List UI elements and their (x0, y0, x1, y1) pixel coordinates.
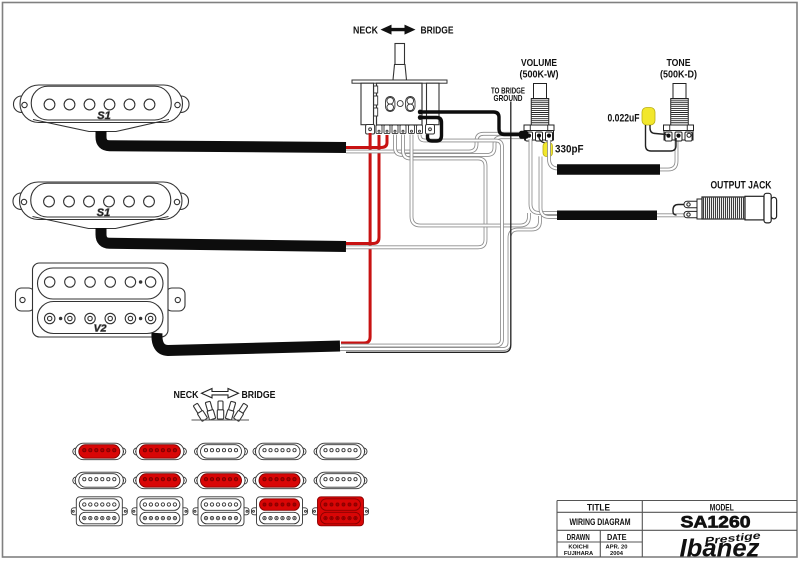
tone pot body (664, 84, 694, 142)
wire white volume lug3 to tone cable (549, 140, 561, 169)
svg-text:DRAWN: DRAWN (567, 532, 590, 542)
Ibanez Prestige logo (680, 531, 762, 561)
chart middle pickup icon pos2 (red) (133, 472, 186, 489)
svg-text:OUTPUT JACK: OUTPUT JACK (711, 180, 772, 192)
svg-text:S1: S1 (97, 207, 110, 219)
wire red neck pickup to switch lug (346, 135, 387, 148)
output jack tip (771, 197, 776, 219)
svg-text:2004: 2004 (610, 551, 624, 557)
switch SW body (377, 83, 423, 125)
svg-text:(500K-D): (500K-D) (660, 69, 697, 81)
wire white cable to jack lug (657, 213, 686, 217)
chart neck pickup icon pos4 (253, 443, 306, 460)
svg-text:WIRING DIAGRAM: WIRING DIAGRAM (570, 517, 631, 528)
wire white cable to tone lug (660, 138, 677, 170)
label NECK-BRIDGE (chart) (174, 389, 276, 402)
switch SW mounting plate (352, 80, 447, 83)
wire white volume lug1 to jack cable (531, 139, 560, 213)
svg-text:APR. 20: APR. 20 (606, 545, 628, 551)
volume pot lug dots (527, 134, 531, 138)
chart middle pickup icon pos5 (314, 472, 367, 489)
switch SW terminal lugs (376, 125, 423, 134)
switch SW inner contacts (374, 86, 415, 116)
svg-text:TITLE: TITLE (587, 502, 610, 512)
wire black switch loop to frame lug (421, 118, 442, 142)
switch SW frame lugs (366, 125, 435, 135)
wire white neck pickup to volume lug1 (346, 134, 521, 152)
chart switch lever fan (192, 401, 250, 421)
output jack threaded barrel (702, 197, 745, 219)
chart neck pickup icon pos2 (red) (133, 443, 186, 460)
svg-text:MODEL: MODEL (710, 502, 734, 512)
humbucker pickup V2 (bridge) (16, 263, 186, 337)
svg-text:BRIDGE: BRIDGE (421, 26, 454, 37)
wire white switch lug down to jack cable (long) (412, 135, 530, 226)
svg-text:GROUND: GROUND (494, 93, 523, 103)
svg-text:VOLUME: VOLUME (521, 57, 557, 69)
svg-text:DATE: DATE (607, 532, 627, 542)
svg-text:NECK: NECK (353, 26, 379, 37)
switch SW lever (393, 44, 407, 81)
capacitor 330pF (543, 143, 553, 157)
chart bridge humbucker icon pos1 (71, 497, 127, 526)
svg-text:S1: S1 (97, 110, 110, 122)
svg-text:330pF: 330pF (555, 144, 584, 156)
wire white 330pF cap to jack cable (541, 157, 560, 218)
chart middle pickup icon pos1 (73, 472, 126, 489)
tone pot lug dots (666, 134, 670, 138)
svg-text:0.022uF: 0.022uF (608, 113, 640, 125)
chart middle pickup icon pos4 (red) (253, 472, 306, 489)
chart middle pickup icon pos3 (red) (195, 472, 248, 489)
svg-text:TONE: TONE (667, 57, 691, 69)
chart bridge humbucker icon pos4 (top red) (252, 497, 308, 526)
svg-text:BRIDGE: BRIDGE (242, 389, 276, 401)
wire white switch lug to humbucker cable (341, 135, 502, 346)
single-coil pickup S1 (middle) (13, 182, 189, 229)
shielded cable volume to output jack (557, 211, 657, 221)
wire white switch lug to middle pickup cable (346, 135, 486, 248)
capacitor 0.022uF (642, 108, 655, 126)
volume pot body (524, 84, 554, 142)
chart neck pickup icon pos3 (195, 443, 248, 460)
svg-text:NECK: NECK (174, 389, 199, 401)
output jack lugs (684, 199, 703, 219)
svg-text:FUJIHARA: FUJIHARA (564, 551, 594, 557)
svg-text:SA1260: SA1260 (681, 513, 751, 532)
single-coil pickup S1 (neck) (14, 85, 190, 132)
label NECK-BRIDGE (switch) (353, 25, 454, 37)
cable from humbucker (157, 333, 340, 351)
wire red middle pickup to switch lug (346, 135, 379, 244)
svg-text:V2: V2 (94, 323, 107, 335)
capacitor 330pF lead (539, 137, 545, 144)
output jack hook wire (673, 205, 688, 216)
chart bridge humbucker icon pos2 (132, 497, 188, 526)
wire black switch to volume ground (421, 112, 522, 135)
cable from middle pickup (101, 228, 346, 247)
output jack flange (764, 193, 771, 223)
wire white humbucker cable riser to volume area (340, 216, 540, 349)
switch SW frame sides (361, 83, 439, 125)
wire to bridge ground (thin) (346, 102, 511, 353)
volume ground solder blob (519, 131, 529, 139)
capacitor 0.022uF lead loop to lug2 (646, 125, 677, 151)
cable from neck pickup (101, 131, 346, 148)
svg-text:Ibanez: Ibanez (680, 535, 761, 561)
chart bridge humbucker icon pos3 (193, 497, 249, 526)
svg-text:(500K-W): (500K-W) (520, 69, 559, 81)
shielded cable volume to tone (557, 164, 660, 175)
switch side solder dots (418, 110, 423, 115)
wire red humbucker to switch frame lug (341, 133, 370, 343)
chart neck pickup icon pos5 (314, 443, 367, 460)
svg-text:KOICHI: KOICHI (568, 545, 589, 551)
wire white switch lug to volume lug2 (395, 135, 534, 155)
chart neck pickup icon pos1 (red) (73, 443, 126, 460)
title block frame (557, 501, 797, 558)
output jack sleeve (745, 196, 764, 220)
chart bridge humbucker icon pos5 (red) (313, 497, 369, 526)
capacitor 0.022uF lead to lug1 (650, 125, 667, 135)
